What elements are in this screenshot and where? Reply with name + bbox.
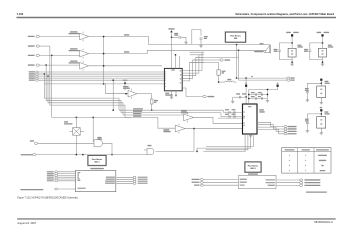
- svg-text:Part Series: Part Series: [248, 165, 259, 168]
- svg-text:7-100: 7-100: [17, 12, 24, 16]
- svg-text:600-2: 600-2: [250, 168, 256, 170]
- svg-text:Part Series: Part Series: [230, 35, 241, 38]
- svg-text:August 24, 2007: August 24, 2007: [17, 221, 36, 225]
- svg-text:Part Series: Part Series: [92, 158, 103, 161]
- svg-text:600-1: 600-1: [94, 162, 100, 164]
- svg-text:Figure 7-123. HUF4017A USB/RS2: Figure 7-123. HUF4017A USB/RS232/GCAI/80…: [17, 196, 78, 200]
- svg-text:6816532H01-A: 6816532H01-A: [314, 220, 333, 224]
- svg-text:Schematics, Component Location: Schematics, Component Location Diagrams,…: [235, 12, 334, 16]
